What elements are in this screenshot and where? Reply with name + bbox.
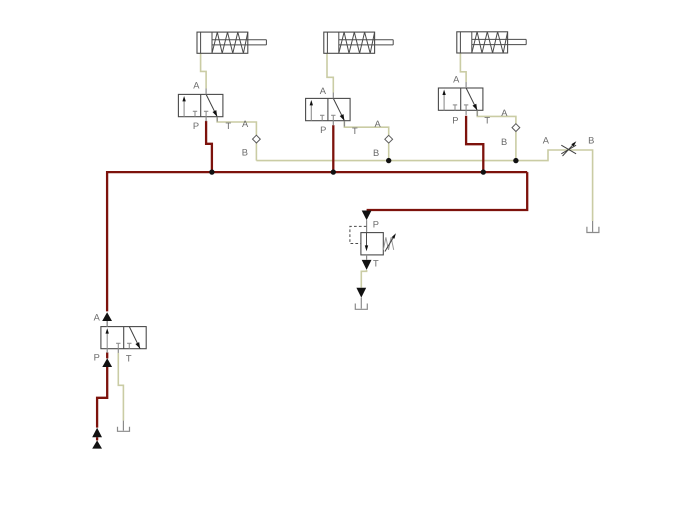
throttle valve F1 (adjustable) [561, 141, 576, 156]
red wire valve V3 port P to bus [466, 116, 483, 172]
wire check component D1 port B down to exhaust bus [255, 143, 257, 160]
svg-text:T: T [484, 116, 490, 126]
wire valve V3 port T to check component D3 port A [477, 110, 516, 123]
valve V1 T port stub [216, 117, 218, 122]
check component D1 [253, 135, 261, 143]
flow arrow at supply valve V4 port P [102, 358, 112, 367]
junction node valve V2 P at bus [331, 169, 336, 174]
svg-text:A: A [242, 119, 249, 129]
svg-text:A: A [453, 75, 460, 85]
wire valve V1 port T to check component D1 port A [217, 117, 256, 135]
junction node D2 branch at exhaust bus [386, 158, 391, 163]
svg-text:B: B [501, 137, 507, 147]
cylinder A3 (single-acting cylinder, spring return) [457, 32, 526, 53]
valve V2 T port stub [343, 121, 345, 127]
svg-text:A: A [374, 119, 381, 129]
svg-text:P: P [320, 125, 326, 135]
wire cylinder2 port to valve V2 port A [327, 53, 333, 92]
red wire valve V2 port P to bus [332, 125, 334, 172]
junction node D3 branch at exhaust bus [513, 158, 518, 163]
red pressure bus wire (P manifold) [107, 172, 527, 311]
valve V1 (3/2-way valve) [178, 89, 223, 122]
svg-text:A: A [193, 81, 200, 91]
valve V3 T port stub [476, 110, 478, 116]
wire check component D2 port B down to exhaust bus [388, 143, 390, 160]
relief valve SV1 (adjustable pressure relief) [350, 211, 396, 270]
svg-text:P: P [193, 121, 199, 131]
cylinder A1 (single-acting cylinder, spring return) [197, 32, 266, 53]
svg-text:B: B [242, 148, 248, 158]
wire check component D3 port B down to exhaust bus [515, 132, 517, 161]
compressed air source Q1 [92, 440, 102, 448]
svg-text:A: A [94, 313, 101, 323]
svg-text:P: P [452, 116, 458, 126]
svg-text:B: B [588, 135, 594, 145]
flow arrow into supply valve V4 port A [102, 312, 112, 326]
svg-text:T: T [352, 126, 358, 136]
wire cylinder3 port to valve V3 port A [460, 53, 466, 82]
svg-text:T: T [373, 259, 379, 269]
junction node valve V1 P at bus [209, 169, 214, 174]
svg-text:T: T [225, 121, 231, 131]
red wire compressed-air source to supply valve V4 port P [106, 352, 108, 358]
svg-text:A: A [501, 108, 508, 118]
valve V4 (3/2-way supply valve) [101, 321, 146, 353]
junction node valve V3 P at bus [481, 169, 486, 174]
muffler / exhaust E2 below relief valve [355, 288, 367, 310]
svg-text:A: A [543, 135, 550, 145]
valve V3 (3/2-way valve) [438, 82, 483, 115]
wire valve V2 port T to check component D2 port A [344, 121, 388, 135]
check component D3 [512, 124, 520, 132]
red wire valve V1 port P to bus [206, 121, 212, 172]
wire relief valve outlet to muffler [361, 270, 366, 288]
exhaust bus wire to throttle F1 and down to exhaust E3 [256, 150, 592, 221]
red wire bus to relief valve SV1 port P [367, 172, 528, 210]
svg-text:T: T [126, 353, 132, 363]
check component D2 [385, 135, 393, 143]
exhaust E3 at throttle outlet [587, 221, 599, 233]
svg-text:B: B [373, 148, 379, 158]
valve V2 (3/2-way valve) [306, 93, 351, 126]
svg-text:A: A [320, 86, 327, 96]
svg-text:P: P [94, 353, 100, 363]
exhaust E1 at supply valve T [118, 421, 130, 432]
wire supply valve V4 port T to exhaust E1 [118, 353, 123, 421]
wire cylinder1 port to valve V1 port A [201, 53, 207, 88]
svg-text:P: P [373, 220, 379, 230]
compressed air source flow arrow [92, 428, 102, 437]
cylinder A2 (single-acting cylinder, spring return) [324, 32, 393, 53]
